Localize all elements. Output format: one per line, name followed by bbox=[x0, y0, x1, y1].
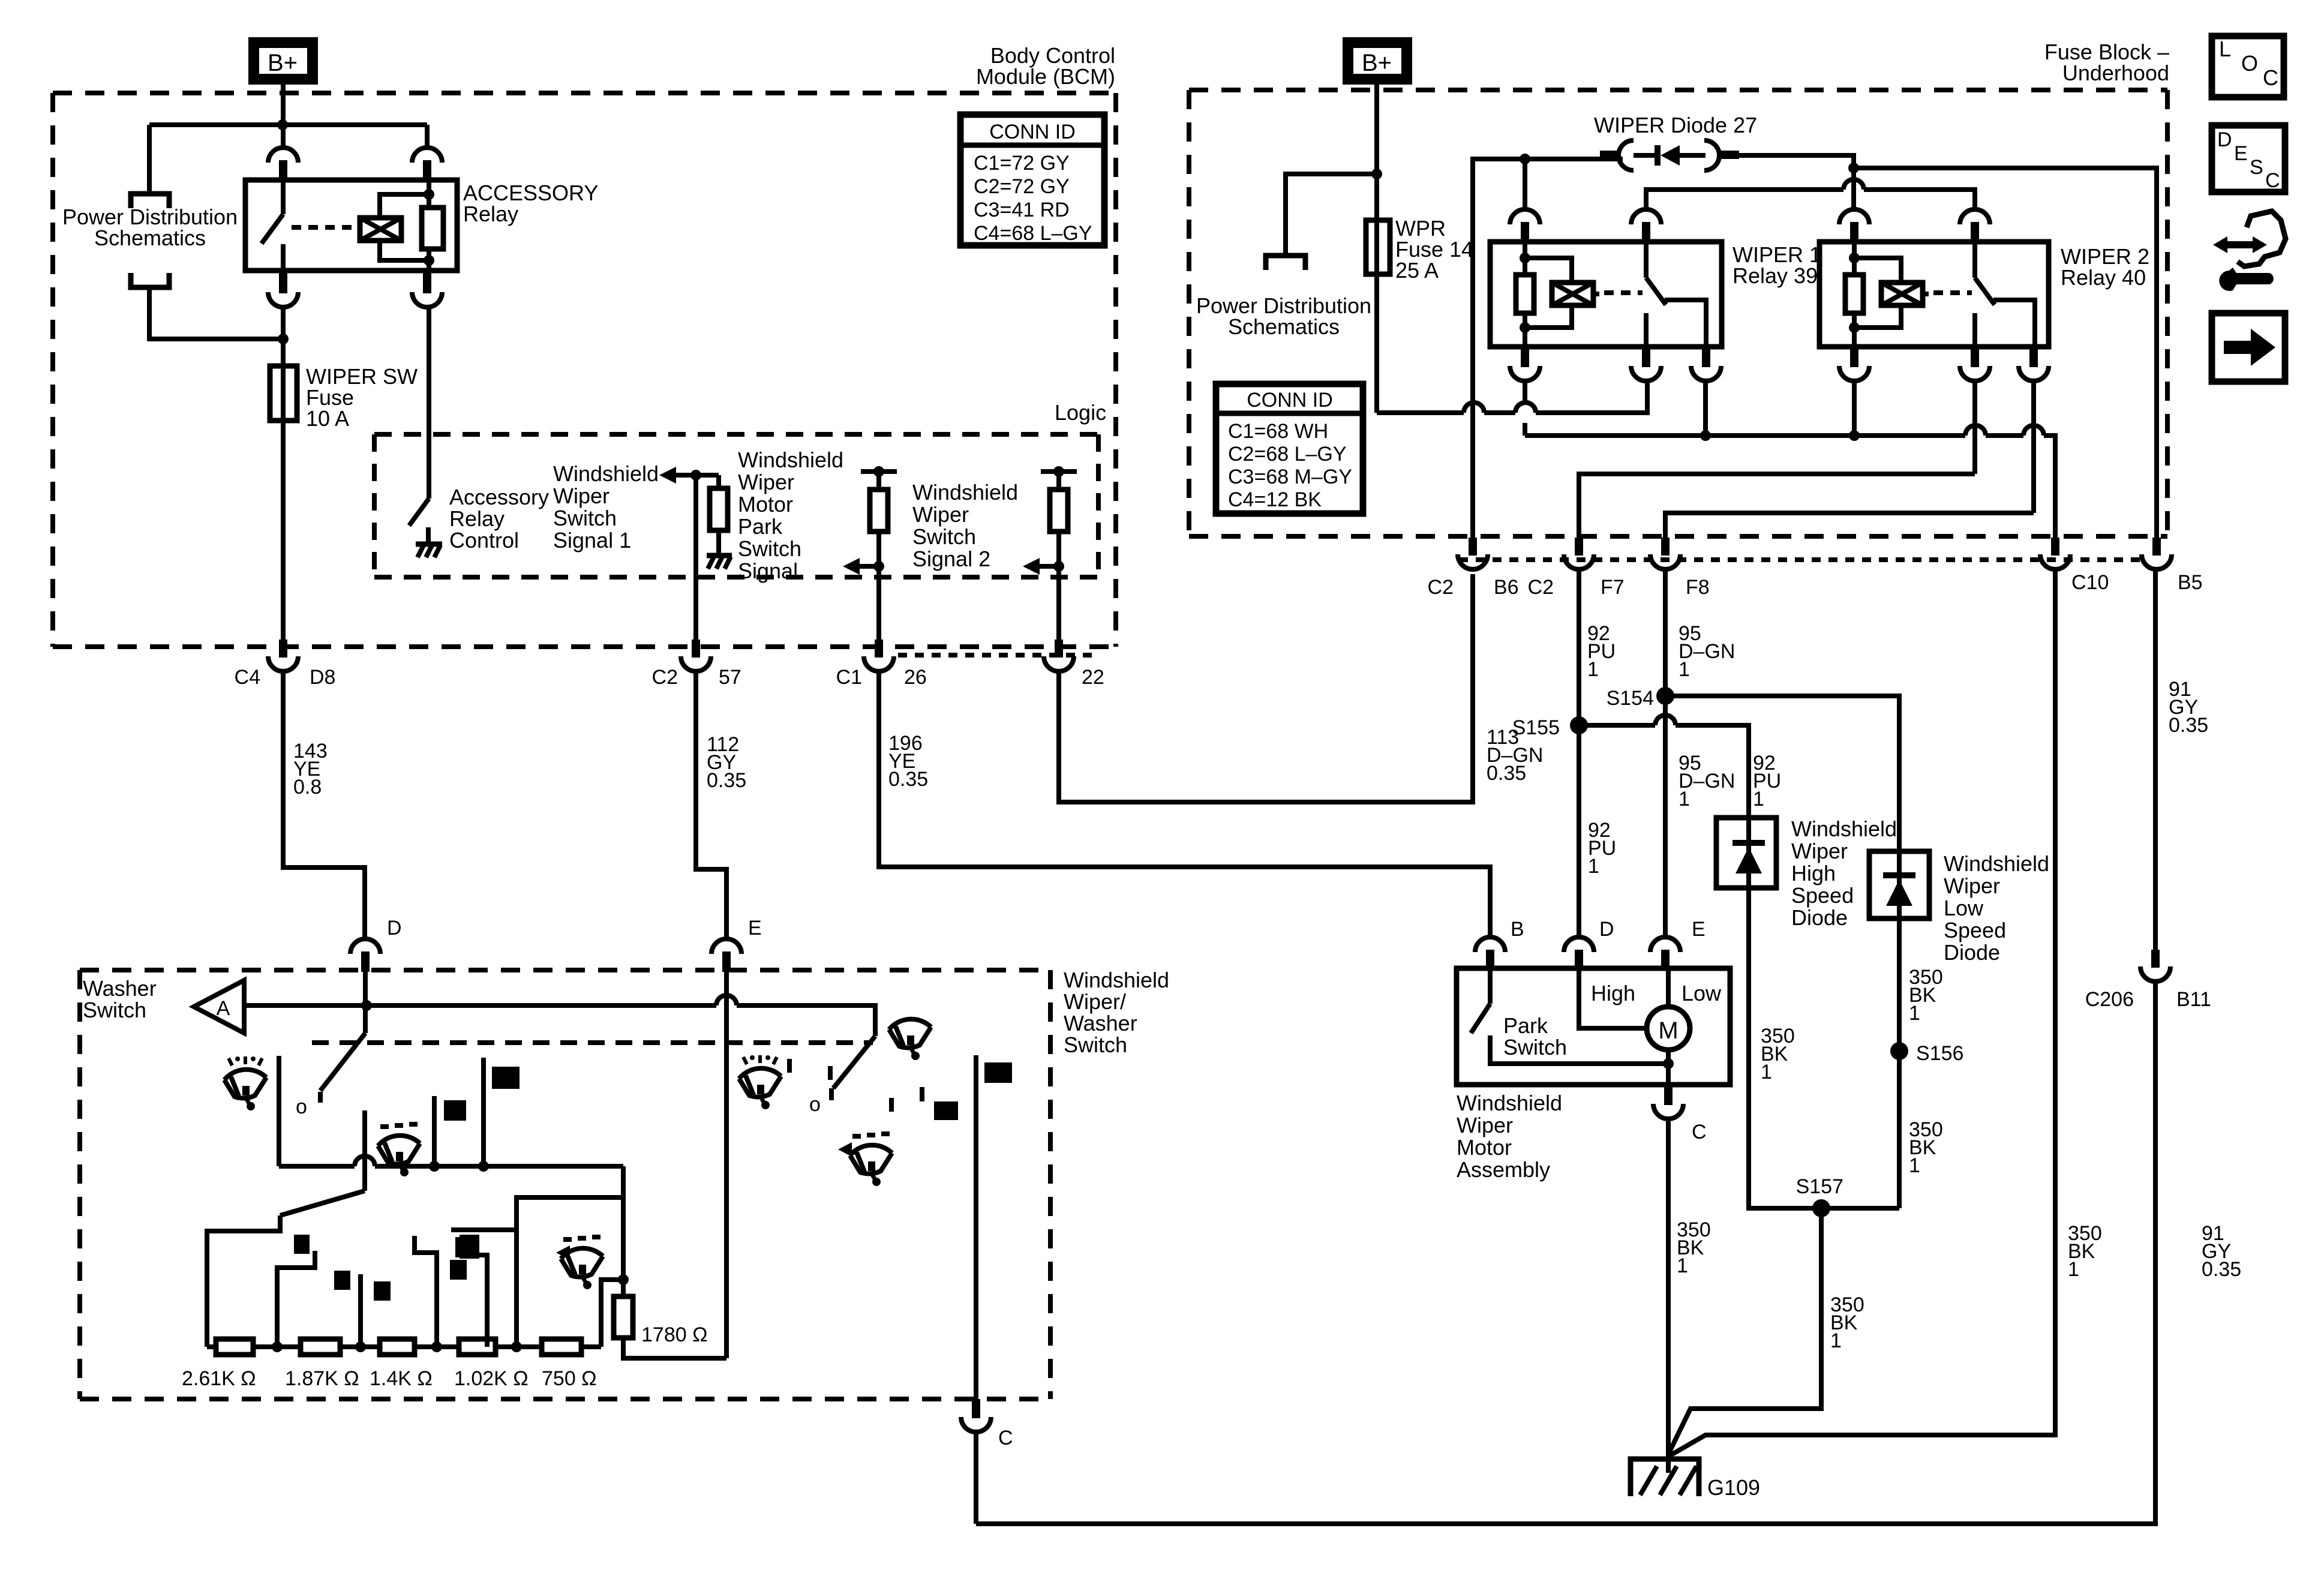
connector F8 at fuse block bottom (female cup) bbox=[1650, 538, 1680, 569]
label Windshield Wiper Motor Park Switch Signal bbox=[738, 448, 843, 583]
icon DESC box bbox=[2212, 125, 2285, 192]
svg-text:B+: B+ bbox=[268, 50, 298, 76]
wire motor return down to C pin bbox=[1666, 1050, 1671, 1085]
relay actuating dashes bbox=[292, 225, 358, 230]
svg-text:S156: S156 bbox=[1916, 1042, 1963, 1065]
label Windshield Wiper High Speed Diode bbox=[1791, 816, 1897, 930]
svg-text:E: E bbox=[1692, 918, 1706, 941]
connector C206/B11 (female cup inline) bbox=[2140, 950, 2170, 981]
park switch (inside motor assembly) bbox=[1471, 968, 1665, 1064]
svg-text:B5: B5 bbox=[2178, 571, 2203, 594]
icon LOC box bbox=[2212, 36, 2284, 97]
riser 5 from ladder to selector path bbox=[517, 1197, 623, 1347]
wire label 92 PU 1 (above S155) bbox=[1587, 622, 1616, 681]
svg-text:750 Ω: 750 Ω bbox=[542, 1367, 597, 1390]
wire label 91 GY 0.35 (B5 leg) bbox=[2169, 678, 2208, 737]
svg-text:C4=68 L–GY: C4=68 L–GY bbox=[974, 222, 1092, 245]
svg-text:Underhood: Underhood bbox=[2062, 61, 2169, 85]
svg-text:C2=72 GY: C2=72 GY bbox=[974, 175, 1070, 198]
svg-text:Wiper/: Wiper/ bbox=[1064, 989, 1126, 1014]
icon forward arrow box bbox=[2212, 313, 2285, 382]
resistor signal 2 (leg 22) bbox=[1050, 490, 1068, 532]
wire junction horizontal to power distribution branch and relay branch bbox=[149, 122, 427, 127]
connector: relay left output (female half, cup) bbox=[268, 271, 298, 307]
svg-text:Wiper: Wiper bbox=[1457, 1113, 1513, 1137]
svg-text:25 A: 25 A bbox=[1395, 258, 1439, 283]
off-page bracket (Power Distribution, right) bbox=[1266, 256, 1305, 270]
svg-text:C4=12 BK: C4=12 BK bbox=[1228, 488, 1322, 511]
svg-text:Windshield: Windshield bbox=[1944, 851, 2049, 876]
node A line / D wire junction bbox=[361, 1000, 372, 1011]
svg-text:Switch: Switch bbox=[1064, 1032, 1127, 1057]
wire label 92 PU 1 (high speed diode branch) bbox=[1753, 752, 1781, 810]
ground (accessory relay control) bbox=[416, 544, 442, 557]
label Windshield Wiper Low Speed Diode bbox=[1944, 851, 2049, 965]
wire D pin into box to junction bbox=[363, 972, 368, 1005]
connector C2/F7 at fuse block bottom (female cup) bbox=[1564, 538, 1594, 569]
switch blade 1 (mode switch upper) bbox=[320, 1005, 365, 1103]
dotted in-line connector line at fuse block bottom bbox=[1459, 557, 2140, 562]
wire 113 D-GN net: 22 down, across to B6 leg bbox=[1059, 574, 1473, 802]
wire B+ down to WPR fuse bbox=[1374, 85, 1379, 220]
node S155 bbox=[1570, 716, 1588, 734]
svg-text:Windshield: Windshield bbox=[1457, 1091, 1562, 1115]
wire junction down to relay39 coil pin bbox=[1523, 159, 1527, 210]
resistor 750 bbox=[542, 1339, 581, 1355]
svg-text:Relay 39: Relay 39 bbox=[1733, 263, 1818, 288]
node on signal 1 wire bbox=[690, 470, 701, 481]
wiper icon 2 (intermittent, mid-left) bbox=[378, 1124, 420, 1176]
logic: signal 2 sense resistor (C1-26 leg) top tick bbox=[861, 466, 897, 490]
position triangle (low) bbox=[556, 1245, 570, 1260]
resistor signal 2 (leg 26) bbox=[870, 490, 888, 532]
connector relay40 coil top pin (male dome) bbox=[1839, 209, 1869, 243]
svg-text:Park: Park bbox=[1503, 1013, 1548, 1038]
svg-text:Control: Control bbox=[449, 528, 519, 553]
svg-text:o: o bbox=[296, 1095, 307, 1118]
contact pad square (right group) bbox=[934, 1101, 958, 1120]
labels C2 F7 bbox=[1528, 576, 1625, 599]
svg-text:0.35: 0.35 bbox=[2169, 714, 2208, 737]
connector motor pin C (female cup below box) bbox=[1653, 1085, 1683, 1119]
svg-text:Wiper: Wiper bbox=[912, 502, 969, 527]
dotted in-line connector line at BCM bottom (connector C1 row) bbox=[898, 653, 1098, 658]
relay coil (crossed box) bbox=[360, 218, 401, 241]
svg-text:Diode: Diode bbox=[1791, 905, 1848, 930]
mechanical link dashed between switch blades bbox=[312, 1040, 873, 1045]
svg-text:S157: S157 bbox=[1796, 1175, 1843, 1198]
wire relay right output down into Logic box (accessory relay control) bbox=[427, 306, 431, 499]
wiper icon 5 (mist, right) bbox=[850, 1134, 892, 1186]
svg-text:A: A bbox=[217, 997, 230, 1020]
svg-text:1: 1 bbox=[1588, 855, 1599, 878]
connector 22 at BCM bottom bbox=[1044, 640, 1074, 671]
labels resistor values bbox=[182, 1367, 597, 1390]
connector C2/57 at BCM bottom bbox=[681, 640, 711, 671]
svg-text:1: 1 bbox=[1679, 658, 1690, 681]
svg-text:1: 1 bbox=[1761, 1061, 1772, 1083]
label Power Distribution Schematics (right) bbox=[1196, 293, 1371, 339]
wire high speed diode down to S157 line bbox=[1749, 888, 1899, 1208]
wire S154 right to low speed diode leg bbox=[1665, 696, 1899, 851]
wiper icon 6 (low, above 1780) bbox=[561, 1237, 603, 1289]
svg-text:1: 1 bbox=[1909, 1154, 1920, 1177]
wire 1780 top left to ladder right end bbox=[601, 1280, 623, 1347]
wire 1780 bottom to E wire bbox=[623, 1338, 726, 1358]
contact riser mid-left bbox=[432, 1096, 437, 1166]
relay39 actuating dashes bbox=[1604, 290, 1643, 295]
svg-text:S155: S155 bbox=[1512, 716, 1560, 739]
svg-text:D: D bbox=[2217, 128, 2232, 151]
wire WPR fuse down and right (feed to relay 39 common) with hops bbox=[1377, 274, 1647, 413]
svg-text:Accessory: Accessory bbox=[449, 485, 549, 509]
WIPER 1 Relay 39 box bbox=[1490, 242, 1722, 347]
svg-text:Wiper: Wiper bbox=[1944, 873, 2000, 898]
svg-text:C2=68 L–GY: C2=68 L–GY bbox=[1228, 443, 1347, 466]
wire S154 down to E connector bbox=[1663, 696, 1668, 938]
svg-text:E: E bbox=[748, 917, 762, 939]
svg-text:Low: Low bbox=[1682, 981, 1722, 1005]
node relay40 coil bottom junction bbox=[1849, 430, 1860, 441]
node relay39 NO junction bbox=[1700, 430, 1711, 441]
marker I above icon 5 bbox=[889, 1098, 894, 1112]
connector C2/B6 at fuse block bottom (female cup) bbox=[1458, 538, 1488, 569]
CONN ID table (fuse block) bbox=[1216, 384, 1363, 514]
svg-text:26: 26 bbox=[904, 666, 927, 689]
wire relay switch common link (39 to 40) with hop bbox=[1646, 179, 1975, 210]
wire B5 down to C206/B11 connector bbox=[2153, 569, 2158, 950]
svg-text:Module (BCM): Module (BCM) bbox=[976, 64, 1115, 89]
svg-text:F8: F8 bbox=[1686, 576, 1710, 599]
contact pad square (C output) bbox=[984, 1062, 1012, 1083]
svg-text:C: C bbox=[2265, 169, 2280, 192]
windshield wiper low speed diode box bbox=[1869, 851, 1929, 918]
svg-text:Windshield: Windshield bbox=[1064, 968, 1169, 992]
labels High Low bbox=[1591, 981, 1722, 1005]
svg-text:Wiper: Wiper bbox=[738, 470, 794, 494]
node: B+ right junction bbox=[1371, 169, 1382, 179]
ladder tap riser 2 bbox=[334, 1271, 391, 1347]
svg-text:0.35: 0.35 bbox=[707, 769, 746, 792]
node: B+ distribution junction bbox=[277, 119, 288, 130]
wire from bracket down and right to fuse junction bbox=[149, 287, 283, 339]
node: feed junction to relay 39 coil bbox=[1520, 154, 1530, 164]
svg-text:C1=72 GY: C1=72 GY bbox=[974, 152, 1070, 175]
svg-text:C: C bbox=[1692, 1121, 1707, 1143]
svg-text:Switch: Switch bbox=[1503, 1035, 1567, 1059]
relay40 switch bbox=[1975, 242, 2035, 347]
node S157 bbox=[1812, 1199, 1830, 1217]
wire label 350 BK 1 (S157 to ground) bbox=[1830, 1293, 1864, 1352]
svg-text:Signal: Signal bbox=[738, 559, 798, 583]
svg-text:F7: F7 bbox=[1601, 576, 1625, 599]
svg-text:E: E bbox=[2234, 142, 2248, 165]
wire signal1 down out of BCM bbox=[693, 475, 698, 642]
label ACCESSORY Relay bbox=[463, 181, 598, 226]
ACCESSORY Relay box bbox=[245, 180, 457, 271]
svg-text:Windshield: Windshield bbox=[912, 480, 1018, 505]
connector relay40 coil bottom (female cup) bbox=[1839, 347, 1869, 381]
off-page bracket (to Power Distribution Schematics) upper bbox=[131, 194, 169, 208]
svg-text:Speed: Speed bbox=[1791, 883, 1854, 908]
svg-text:Park: Park bbox=[738, 514, 783, 539]
relay39 coil wiring bbox=[1525, 242, 1599, 347]
wire label 95 D-GN 1 (above S154) bbox=[1679, 622, 1735, 681]
wire B+ down to junction and relay bbox=[281, 85, 286, 148]
connector motor pin D (male dome) bbox=[1564, 937, 1594, 971]
svg-text:10 A: 10 A bbox=[306, 406, 349, 431]
svg-text:Relay 40: Relay 40 bbox=[2061, 265, 2146, 290]
wire 112 GY from C2-57 down to E connector bbox=[696, 671, 726, 939]
svg-text:High: High bbox=[1591, 981, 1635, 1005]
svg-text:B+: B+ bbox=[1362, 50, 1392, 76]
connector relay40 switch top pin (male dome) bbox=[1960, 209, 1990, 243]
svg-text:D: D bbox=[1599, 918, 1614, 941]
wire junction right to B5 leg bbox=[1854, 168, 2157, 538]
label Accessory Relay Control bbox=[449, 485, 549, 553]
svg-text:2.61K Ω: 2.61K Ω bbox=[182, 1367, 256, 1390]
wire fuse down to BCM bottom connector C4 bbox=[281, 421, 286, 642]
icon service arrows and wrench bbox=[2213, 211, 2286, 291]
svg-text:1: 1 bbox=[2068, 1258, 2079, 1281]
relay40 coil junction nodes bbox=[1849, 253, 1860, 333]
svg-text:Low: Low bbox=[1944, 896, 1984, 920]
wire label 95 D-GN 1 (below S154) bbox=[1679, 752, 1735, 810]
ground G109 symbol bbox=[1631, 1459, 1699, 1496]
svg-text:Signal 1: Signal 1 bbox=[553, 528, 631, 553]
wire label 350 BK 1 (above S156) bbox=[1909, 966, 1943, 1025]
svg-text:B11: B11 bbox=[2176, 988, 2211, 1011]
connector: relay right output (female half, cup) bbox=[412, 271, 442, 307]
switch accessory relay control bbox=[409, 499, 429, 542]
wire low speed diode down through S156 bbox=[1897, 918, 1902, 1208]
motor low lead bbox=[1666, 968, 1671, 1007]
wire 143 YE from C4 down to D connector bbox=[283, 671, 365, 939]
wire label 143 YE 0.8 bbox=[293, 740, 328, 798]
svg-text:O: O bbox=[2241, 51, 2258, 76]
wire motor C down to G109 bbox=[1666, 1119, 1671, 1473]
wire S155 right to high speed diode leg (hop over E wire) bbox=[1579, 715, 1749, 818]
resistor ladder bus bbox=[207, 1344, 601, 1349]
wiper icon 1 (wash, left) bbox=[224, 1056, 266, 1110]
ground (park switch signal pulldown) bbox=[707, 556, 732, 569]
svg-text:C206: C206 bbox=[2085, 988, 2134, 1011]
connector relay39 switch top pin (male dome) bbox=[1631, 209, 1661, 243]
connector C4/D8 at BCM bottom (female cup) bbox=[268, 640, 298, 671]
svg-text:1: 1 bbox=[1679, 788, 1690, 810]
label Washer Switch bbox=[83, 976, 157, 1022]
WIPER 2 Relay 40 box bbox=[1819, 242, 2049, 347]
wire relay40 NO down to F8 feed line (y855) bbox=[1665, 380, 2034, 538]
ladder tap riser 3 bbox=[415, 1236, 467, 1347]
connector wiper diode right (female, horizontal) bbox=[1704, 140, 1739, 170]
svg-text:0.35: 0.35 bbox=[2202, 1258, 2241, 1281]
spur contact at riser 5 bbox=[451, 1227, 517, 1232]
svg-text:C: C bbox=[2263, 65, 2278, 90]
label Windshield Wiper Switch Signal 1 bbox=[553, 461, 659, 553]
svg-text:G109: G109 bbox=[1707, 1475, 1760, 1500]
svg-text:Windshield: Windshield bbox=[1791, 816, 1897, 841]
connector C1/26 at BCM bottom bbox=[864, 640, 894, 671]
svg-text:Diode: Diode bbox=[1944, 940, 2000, 965]
fuse WIPER SW 10A bbox=[270, 366, 297, 421]
motor M circle bbox=[1647, 1007, 1690, 1050]
wire B11 down to washer switch C pin (bottom run) bbox=[976, 981, 2155, 1524]
wire A line across (hop over E wire) bbox=[244, 995, 875, 1036]
wire label 350 BK 1 (high speed diode output) bbox=[1761, 1025, 1795, 1083]
svg-text:Switch: Switch bbox=[553, 506, 617, 530]
svg-text:D8: D8 bbox=[310, 666, 335, 689]
logic: windshield wiper switch signal 1 arrow bbox=[659, 467, 719, 484]
node: coil/resistor top junction bbox=[424, 189, 434, 200]
contact pad squares (left switch group) bbox=[444, 1067, 520, 1121]
svg-text:Washer: Washer bbox=[1064, 1011, 1137, 1035]
svg-text:1: 1 bbox=[1830, 1329, 1842, 1352]
labels C2 57 bbox=[652, 666, 741, 689]
wire C10 output down and to ground bbox=[1670, 569, 2055, 1455]
svg-text:C2: C2 bbox=[1428, 576, 1454, 599]
svg-text:1.87K Ω: 1.87K Ω bbox=[285, 1367, 359, 1390]
node: fuse feed junction bbox=[278, 334, 289, 344]
Fuse Block Underhood dashed outline box bbox=[1189, 90, 2167, 536]
resistor 1780 ohm bbox=[614, 1296, 633, 1338]
wire junction down to relay40 coil pin bbox=[1851, 168, 1856, 210]
svg-text:C3=41 RD: C3=41 RD bbox=[974, 199, 1070, 221]
switch blade 2 (lower, resistor selector) bbox=[280, 1110, 365, 1215]
svg-text:1: 1 bbox=[1677, 1254, 1688, 1277]
svg-text:D: D bbox=[387, 917, 402, 939]
svg-text:High: High bbox=[1791, 861, 1836, 885]
wire relay39 NO bottom to 726 line bbox=[1703, 380, 1708, 436]
label WIPER SW Fuse 10 A bbox=[306, 364, 418, 431]
node: diode output junction bbox=[1848, 163, 1859, 173]
label Power Distribution Schematics (left) bbox=[62, 205, 238, 250]
svg-text:o: o bbox=[809, 1093, 821, 1116]
wire label 113 D-GN 0.35 bbox=[1487, 726, 1543, 785]
contact riser mid-right bbox=[481, 1058, 486, 1166]
svg-text:C1=68 WH: C1=68 WH bbox=[1228, 420, 1328, 443]
wire resistor to arrow node bbox=[876, 532, 881, 642]
labels C2 B6 bbox=[1428, 576, 1519, 599]
svg-text:Wiper: Wiper bbox=[1791, 839, 1848, 863]
relay40 coil wiring bbox=[1854, 242, 1929, 347]
svg-text:1: 1 bbox=[1753, 788, 1764, 810]
Logic dashed box bbox=[374, 434, 1098, 577]
B+ power symbol (left, BCM) bbox=[248, 37, 318, 85]
svg-text:Switch: Switch bbox=[738, 536, 801, 561]
wire F8 95 D-GN down to S154 bbox=[1663, 569, 1668, 696]
relay switch (inside ACCESSORY relay) bbox=[262, 180, 283, 271]
marker I (right switch) bbox=[828, 1066, 833, 1080]
svg-text:Schematics: Schematics bbox=[1228, 314, 1340, 339]
connector relay39 coil bottom (female cup) bbox=[1510, 347, 1540, 381]
connector washer box pin E (dome into box) bbox=[711, 939, 741, 972]
wire label 350 BK 1 (below S156) bbox=[1909, 1118, 1943, 1177]
relay40 actuating dashes bbox=[1933, 290, 1972, 295]
connector relay40 switch-common bottom (female cup) bbox=[1960, 347, 1990, 381]
washer switch off-page arrow A bbox=[194, 980, 244, 1033]
svg-text:Switch: Switch bbox=[83, 998, 146, 1022]
node: coil/resistor bottom junction bbox=[424, 255, 434, 266]
BCM dashed outline box bbox=[53, 93, 1116, 647]
resistor 2.61K bbox=[216, 1339, 253, 1355]
connector motor pin B (male dome) bbox=[1475, 937, 1505, 971]
wire label 91 GY 0.35 (B11 leg bottom) bbox=[2202, 1222, 2241, 1281]
svg-text:B6: B6 bbox=[1494, 576, 1519, 599]
diode symbol (cathode bar + triangle) bbox=[1634, 145, 1706, 166]
arrow signal 2 (leg 22) bbox=[1023, 558, 1064, 575]
svg-text:57: 57 bbox=[719, 666, 741, 689]
wire diode output right to corner bbox=[1739, 155, 1854, 168]
windshield wiper motor assembly box bbox=[1457, 968, 1730, 1085]
connector B5 at fuse block bottom (female cup) bbox=[2142, 538, 2172, 569]
svg-text:Logic: Logic bbox=[1055, 400, 1106, 425]
marker I near right pads bbox=[920, 1087, 924, 1101]
svg-text:C2: C2 bbox=[652, 666, 678, 689]
switch blade 3 (right, washer mode) bbox=[831, 1036, 875, 1100]
connector washer box pin C (female cup below box) bbox=[961, 1399, 991, 1432]
svg-text:M: M bbox=[1658, 1017, 1678, 1044]
node 1780 resistor top bbox=[618, 1274, 629, 1285]
label Fuse Block - Underhood bbox=[2044, 40, 2169, 85]
svg-text:Wiper: Wiper bbox=[553, 484, 609, 508]
connector relay39 NO bottom (female cup) bbox=[1691, 347, 1721, 381]
svg-text:C3=68 M–GY: C3=68 M–GY bbox=[1228, 466, 1352, 488]
wire junction to right power distribution bracket bbox=[1286, 174, 1377, 253]
resistor 1.02K bbox=[459, 1339, 496, 1355]
node S156 bbox=[1890, 1042, 1908, 1060]
svg-text:C: C bbox=[998, 1427, 1013, 1449]
marker I near icon 4 bbox=[787, 1059, 792, 1073]
wire label 112 GY 0.35 bbox=[707, 733, 746, 792]
label WPR Fuse 14 25 A bbox=[1395, 216, 1473, 283]
connector relay40 NO bottom (female cup) bbox=[2019, 347, 2049, 381]
wire F7 92 PU down to S155 bbox=[1577, 569, 1581, 725]
relay39 switch bbox=[1646, 242, 1706, 347]
svg-text:CONN ID: CONN ID bbox=[989, 121, 1076, 143]
svg-text:Assembly: Assembly bbox=[1457, 1157, 1550, 1182]
label Windshield Wiper Switch Signal 2 bbox=[912, 480, 1018, 571]
wire label 350 BK 1 (C10 to ground) bbox=[2068, 1222, 2102, 1281]
wire S157 down to ground run bbox=[1668, 1208, 1821, 1454]
relay coil parallel resistor bbox=[422, 208, 443, 249]
svg-text:Motor: Motor bbox=[1457, 1135, 1512, 1160]
svg-text:0.8: 0.8 bbox=[293, 776, 322, 798]
position triangle (icon 5) bbox=[838, 1142, 852, 1157]
svg-text:Signal 2: Signal 2 bbox=[912, 547, 990, 571]
B+ power symbol (right, fuse block) bbox=[1343, 37, 1412, 85]
label Windshield Wiper Motor Assembly bbox=[1457, 1091, 1562, 1182]
arrow signal 2 (leg 26) bbox=[843, 558, 884, 575]
svg-text:CONN ID: CONN ID bbox=[1247, 389, 1333, 412]
motor high winding lead bbox=[1579, 968, 1647, 1028]
relay40 coil resistor bbox=[1845, 275, 1863, 313]
wire left branch down to power distribution bracket bbox=[147, 125, 152, 193]
label Windshield Wiper/Washer Switch bbox=[1064, 968, 1169, 1057]
wire lower common bus (hop over D blade leg) bbox=[279, 1156, 623, 1166]
connector relay39 coil top pin (male dome) bbox=[1510, 209, 1540, 243]
connector: ACCESSORY relay left pin (male half, dome) bbox=[268, 148, 298, 163]
svg-text:Speed: Speed bbox=[1944, 918, 2006, 942]
relay40 coil (crossed box) bbox=[1881, 283, 1923, 305]
off contact column (left) bbox=[277, 1056, 281, 1166]
wire right branch down to relay right pin bbox=[425, 125, 430, 148]
Windshield Wiper/Washer Switch dashed outline box bbox=[80, 970, 1050, 1399]
label WIPER 2 Relay 40 bbox=[2061, 244, 2149, 290]
wire relay left output down through junction to fuse bbox=[281, 306, 286, 366]
label WIPER 1 Relay 39 bbox=[1733, 242, 1821, 288]
windshield wiper high speed diode box bbox=[1716, 818, 1776, 888]
